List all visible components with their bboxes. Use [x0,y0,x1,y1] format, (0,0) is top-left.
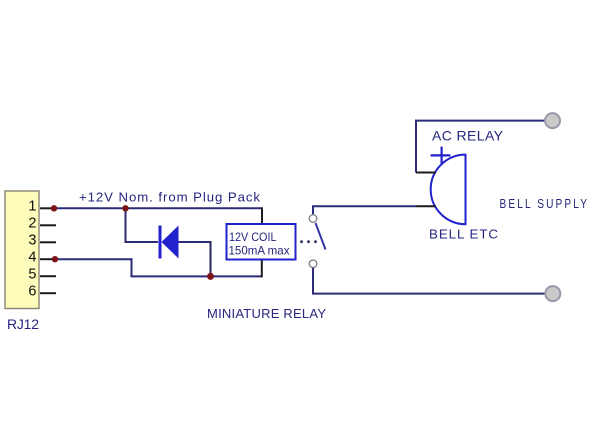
svg-text:4: 4 [28,249,36,265]
wire bell upper lead stub [416,172,436,174]
wire bell upper branch vertical [415,120,417,173]
pin 1 [28,199,56,215]
wire pin4 horizontal [55,258,132,260]
svg-text:12V COIL: 12V COIL [229,230,277,244]
svg-text:2: 2 [28,216,36,232]
wire diode anode-side horizontal [125,241,159,243]
svg-text:MINIATURE RELAY: MINIATURE RELAY [207,306,326,321]
svg-text:BELL SUPPLY: BELL SUPPLY [500,197,590,211]
connector J1 RJ12 body [5,191,39,309]
wire bottom supply rail [312,293,546,295]
junction dot pin1 [51,205,57,211]
pin 6 [28,283,56,299]
bell LS1 (half-disc) [431,155,466,225]
svg-text:+12V Nom. from Plug Pack: +12V Nom. from Plug Pack [79,189,260,204]
diode D1 (cathode bar left, pointing left) [160,226,179,259]
svg-text:1: 1 [28,199,36,215]
wire coil bottom lead [261,259,263,278]
junction dot diode branch top [122,205,128,211]
wire bell lower lead stub [416,205,436,207]
svg-text:BELL ETC: BELL ETC [429,226,498,241]
terminal bottom (bell supply) [545,286,560,301]
wire switch top to bell [313,205,416,207]
svg-text:150mA max: 150mA max [229,244,290,258]
junction dot bottom rail [207,273,214,280]
wire diode branch down from +12V rail [125,208,127,242]
wire diode branch down to bottom rail [210,241,212,276]
switch contact top [309,215,317,223]
pin 5 [28,266,56,282]
wire switch top up [312,205,314,214]
svg-text:3: 3 [28,233,36,249]
svg-text:RJ12: RJ12 [7,316,39,332]
wire diode right lead [179,241,211,243]
terminal top (bell supply) [545,113,560,128]
wire switch bottom down [312,268,314,294]
relay coil box K1 [227,224,296,260]
svg-text:6: 6 [28,283,36,299]
wire pin4 jog down [131,258,133,276]
linkage dots between coil and contacts [300,240,317,243]
junction dot pin4 [52,256,58,262]
polarity plus sign [431,147,451,165]
wire +12V rail pin1 to coil corner [54,207,262,209]
wire coil top lead [261,207,263,224]
wire top supply rail [415,120,546,122]
wire bottom return rail [131,275,262,277]
switch contact bottom [309,260,317,268]
pin 2 [28,216,56,232]
svg-text:AC RELAY: AC RELAY [432,128,504,144]
switch blade [316,223,326,250]
pin 4 [28,249,56,265]
svg-text:5: 5 [28,266,36,282]
pin 3 [28,233,56,249]
